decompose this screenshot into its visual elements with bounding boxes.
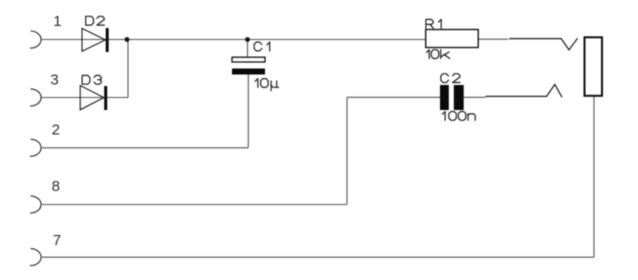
svg-text:1: 1 — [53, 13, 61, 30]
svg-text:2: 2 — [52, 122, 60, 139]
svg-text:7: 7 — [53, 232, 61, 249]
svg-text:3: 3 — [50, 71, 58, 88]
svg-text:8: 8 — [52, 178, 60, 195]
